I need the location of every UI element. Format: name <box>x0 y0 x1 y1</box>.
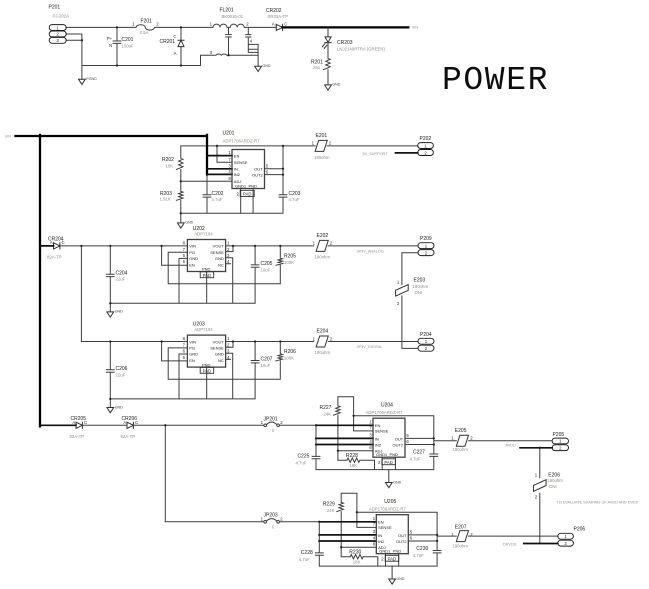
svg-text:10K: 10K <box>166 163 174 168</box>
svg-text:PND: PND <box>393 549 402 554</box>
svg-text:R205: R205 <box>284 254 296 260</box>
svg-text:C203: C203 <box>289 191 301 197</box>
svg-text:GND1: GND1 <box>235 184 247 189</box>
svg-text:NC: NC <box>218 358 224 363</box>
svg-text:SENSE: SENSE <box>375 429 389 434</box>
svg-text:GND: GND <box>189 352 198 357</box>
svg-text:24K: 24K <box>327 508 335 513</box>
svg-text:C: C <box>173 34 176 39</box>
svg-text:PND: PND <box>202 267 211 272</box>
svg-text:EN: EN <box>234 153 240 158</box>
svg-text:PND: PND <box>202 362 211 367</box>
svg-text:P205: P205 <box>553 432 565 438</box>
svg-text:VIN: VIN <box>412 26 419 30</box>
svg-text:P+: P+ <box>107 36 113 41</box>
svg-text:10uF: 10uF <box>261 268 271 273</box>
svg-text:BK0016-01: BK0016-01 <box>222 14 244 19</box>
svg-text:PGND: PGND <box>86 77 97 81</box>
svg-text:POWER: POWER <box>442 62 549 99</box>
svg-text:A: A <box>272 21 275 26</box>
svg-text:OUT2: OUT2 <box>393 442 404 447</box>
svg-text:E201: E201 <box>316 133 328 139</box>
svg-text:CR203: CR203 <box>337 40 353 46</box>
svg-text:IN: IN <box>234 167 238 172</box>
svg-text:GND: GND <box>189 256 198 261</box>
svg-text:SENSE: SENSE <box>234 160 248 165</box>
svg-text:ADP1706ARDZ-R7: ADP1706ARDZ-R7 <box>366 410 404 415</box>
svg-text:4.7uF: 4.7uF <box>413 553 424 558</box>
svg-text:P209: P209 <box>420 236 432 242</box>
svg-text:5V_SUPPORT: 5V_SUPPORT <box>363 152 389 156</box>
svg-text:DNI: DNI <box>415 290 422 295</box>
svg-text:82A-TP: 82A-TP <box>70 434 85 439</box>
svg-text:GND1: GND1 <box>379 549 391 554</box>
svg-text:1.91K: 1.91K <box>160 197 171 202</box>
svg-text:C207: C207 <box>261 357 273 363</box>
svg-text:C225: C225 <box>298 454 310 460</box>
svg-text:E204: E204 <box>317 328 329 334</box>
svg-text:ADP1706ARDZ-R7: ADP1706ARDZ-R7 <box>223 138 261 143</box>
svg-text:VIN: VIN <box>189 339 196 344</box>
svg-text:ADP1706ARDZ-R7: ADP1706ARDZ-R7 <box>369 506 407 511</box>
svg-text:190ohm: 190ohm <box>547 478 563 483</box>
svg-text:EN: EN <box>375 423 381 428</box>
svg-text:100K: 100K <box>284 260 294 265</box>
svg-text:10uF: 10uF <box>261 363 271 368</box>
svg-text:F201: F201 <box>141 18 153 24</box>
svg-text:A: A <box>174 51 177 56</box>
svg-text:GND: GND <box>215 352 224 357</box>
svg-text:OUT: OUT <box>398 533 407 538</box>
svg-text:FL201: FL201 <box>220 8 234 14</box>
svg-text:P204: P204 <box>420 332 432 338</box>
svg-text:2.5A: 2.5A <box>140 30 149 35</box>
svg-text:JP203: JP203 <box>264 513 278 519</box>
svg-text:PG: PG <box>189 346 195 351</box>
svg-text:R227: R227 <box>320 405 332 411</box>
svg-text:GND: GND <box>393 480 401 484</box>
svg-text:A: A <box>123 420 126 425</box>
svg-text:22uF: 22uF <box>116 372 126 377</box>
svg-text:EN: EN <box>378 520 384 525</box>
svg-text:C228: C228 <box>301 550 313 556</box>
svg-text:DRVDD: DRVDD <box>503 542 517 546</box>
svg-text:C: C <box>284 21 287 26</box>
svg-text:U201: U201 <box>223 130 235 136</box>
svg-text:E203: E203 <box>414 277 426 283</box>
svg-text:P201: P201 <box>49 5 61 11</box>
svg-text:ADP7104: ADP7104 <box>194 232 213 237</box>
svg-text:82A-TP: 82A-TP <box>47 255 62 260</box>
svg-text:NC: NC <box>218 262 224 267</box>
svg-text:IN: IN <box>375 436 379 441</box>
svg-text:IN2: IN2 <box>375 442 382 447</box>
svg-text:C: C <box>84 420 87 425</box>
svg-text:PJ-202A: PJ-202A <box>53 14 70 19</box>
svg-text:PAD: PAD <box>203 273 212 278</box>
svg-text:A: A <box>72 420 75 425</box>
svg-text:DNI: DNI <box>549 484 556 489</box>
svg-text:3P3V_DIGITAL: 3P3V_DIGITAL <box>357 345 383 349</box>
svg-text:100K: 100K <box>284 356 294 361</box>
svg-text:IN: IN <box>378 533 382 538</box>
svg-text:R230: R230 <box>349 550 361 556</box>
svg-text:R229: R229 <box>323 501 335 507</box>
svg-text:24K: 24K <box>324 412 332 417</box>
svg-text:E205: E205 <box>455 428 467 434</box>
svg-text:E202: E202 <box>317 233 329 239</box>
svg-text:LNJ2149RTRA (GREEN): LNJ2149RTRA (GREEN) <box>337 46 385 51</box>
svg-text:PAD: PAD <box>243 192 252 197</box>
svg-text:IN2: IN2 <box>234 172 241 177</box>
svg-text:PAD: PAD <box>388 556 397 561</box>
svg-text:PND: PND <box>390 452 399 457</box>
svg-text:OUT: OUT <box>395 436 404 441</box>
svg-text:190ohm: 190ohm <box>314 155 330 160</box>
svg-text:4.7uF: 4.7uF <box>299 557 310 562</box>
svg-text:190ohm: 190ohm <box>315 255 331 260</box>
svg-text:SENSE: SENSE <box>210 346 224 351</box>
svg-text:ADP7104: ADP7104 <box>194 327 213 332</box>
svg-text:GND: GND <box>397 577 405 581</box>
svg-text:C230: C230 <box>416 546 428 552</box>
svg-text:JP201: JP201 <box>264 416 278 422</box>
svg-text:C206: C206 <box>116 366 128 372</box>
svg-text:PND: PND <box>249 184 258 189</box>
svg-text:4.7uF: 4.7uF <box>296 460 307 465</box>
svg-text:100uF: 100uF <box>122 43 135 48</box>
svg-text:C205: C205 <box>261 261 273 267</box>
svg-text:22uF: 22uF <box>116 277 126 282</box>
svg-text:U204: U204 <box>381 403 393 409</box>
svg-text:CR201: CR201 <box>160 39 176 45</box>
svg-text:N: N <box>109 43 112 48</box>
svg-text:4.7uF: 4.7uF <box>289 197 300 202</box>
svg-text:PAD: PAD <box>203 368 212 373</box>
svg-text:C204: C204 <box>116 270 128 276</box>
svg-text:190ohm: 190ohm <box>315 350 331 355</box>
svg-text:OUT2: OUT2 <box>252 172 263 177</box>
svg-text:GND: GND <box>115 405 123 409</box>
svg-text:GND1: GND1 <box>376 452 388 457</box>
svg-text:GND: GND <box>185 221 193 225</box>
svg-text:U205: U205 <box>384 499 396 505</box>
svg-text:18K: 18K <box>353 560 361 565</box>
svg-text:C: C <box>135 420 138 425</box>
svg-text:R206: R206 <box>284 349 296 355</box>
svg-text:PG: PG <box>189 250 195 255</box>
svg-text:SENSE: SENSE <box>378 525 392 530</box>
svg-text:190ohm: 190ohm <box>452 544 468 549</box>
svg-text:SR33A-TP: SR33A-TP <box>268 14 289 19</box>
svg-text:VIN: VIN <box>189 244 196 249</box>
svg-text:GND: GND <box>263 64 271 68</box>
svg-text:R228: R228 <box>346 453 358 459</box>
svg-text:EN: EN <box>189 358 195 363</box>
svg-text:TO EVALUATE SHARING OF AVDD AN: TO EVALUATE SHARING OF AVDD AND DVDD <box>557 500 639 504</box>
svg-text:VOUT: VOUT <box>213 244 225 249</box>
svg-text:4.7uF: 4.7uF <box>410 456 421 461</box>
svg-text:82A-TP: 82A-TP <box>121 434 136 439</box>
svg-text:VIN: VIN <box>5 134 12 138</box>
svg-text:C: C <box>62 240 65 245</box>
svg-text:C201: C201 <box>122 37 134 43</box>
svg-text:EN: EN <box>189 262 195 267</box>
svg-text:P206: P206 <box>574 526 586 532</box>
svg-text:C202: C202 <box>212 191 224 197</box>
svg-text:R202: R202 <box>162 157 174 163</box>
svg-text:OUT2: OUT2 <box>396 539 407 544</box>
svg-text:E207: E207 <box>455 525 467 531</box>
svg-text:190ohm: 190ohm <box>413 284 429 289</box>
svg-text:OUT: OUT <box>254 167 263 172</box>
svg-text:4.7uF: 4.7uF <box>212 197 223 202</box>
svg-text:IN2: IN2 <box>378 539 385 544</box>
svg-text:GND: GND <box>215 256 224 261</box>
svg-text:3P3V_ANALOG: 3P3V_ANALOG <box>357 250 384 254</box>
svg-text:C227: C227 <box>413 450 425 456</box>
svg-text:AVDD: AVDD <box>506 444 517 448</box>
svg-text:18K: 18K <box>350 463 358 468</box>
svg-text:P202: P202 <box>420 136 432 142</box>
svg-text:PAD: PAD <box>384 460 393 465</box>
svg-text:261: 261 <box>313 65 321 70</box>
svg-text:GND: GND <box>115 310 123 314</box>
svg-text:GND: GND <box>332 83 340 87</box>
svg-text:A: A <box>50 240 53 245</box>
svg-text:190ohm: 190ohm <box>452 447 468 452</box>
svg-text:SENSE: SENSE <box>210 250 224 255</box>
svg-text:VOUT: VOUT <box>213 339 225 344</box>
